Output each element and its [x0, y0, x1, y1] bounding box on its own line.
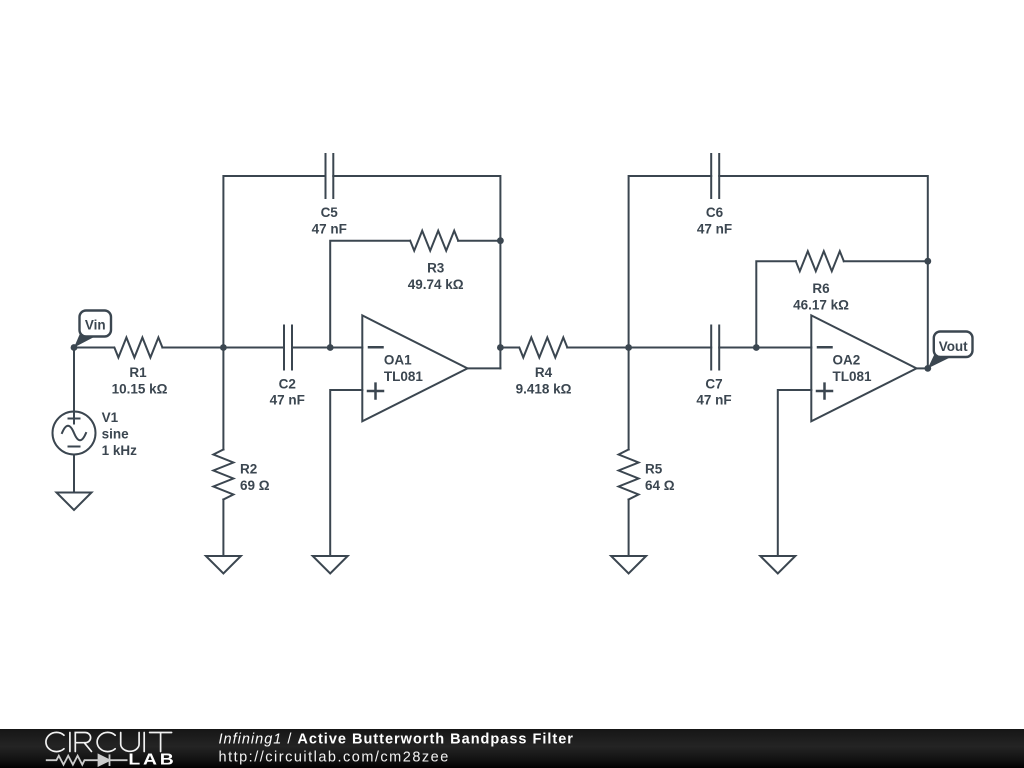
node B [220, 344, 227, 351]
wire C5 loop left [223, 176, 325, 348]
svg-text:TL081: TL081 [833, 369, 873, 384]
svg-text:47 nF: 47 nF [697, 221, 732, 236]
ground V1 [57, 493, 92, 511]
wire R4 to node D [567, 347, 711, 349]
svg-text:46.17 kΩ: 46.17 kΩ [793, 298, 849, 313]
svg-text:R1: R1 [129, 365, 147, 380]
svg-text:C7: C7 [705, 376, 722, 391]
node R3 right [497, 237, 504, 244]
ground R5 [611, 556, 646, 574]
svg-text:47 nF: 47 nF [270, 393, 305, 408]
resistor R6 [796, 251, 844, 271]
svg-text:69 Ω: 69 Ω [240, 478, 270, 493]
svg-text:R4: R4 [535, 365, 553, 380]
capacitor C7 [711, 326, 719, 370]
resistor R4 [519, 338, 567, 358]
capacitor C2 [284, 326, 292, 370]
capacitor C5 [326, 154, 334, 198]
svg-text:64 Ω: 64 Ω [645, 478, 675, 493]
flag Vout [928, 332, 973, 369]
svg-text:R6: R6 [812, 281, 830, 296]
node D [625, 344, 632, 351]
svg-text:10.15 kΩ: 10.15 kΩ [112, 382, 168, 397]
svg-text:C2: C2 [279, 376, 296, 391]
wire C5 loop right [333, 176, 500, 368]
svg-text:http://circuitlab.com/cm28zee: http://circuitlab.com/cm28zee [219, 750, 450, 766]
V1 sine [62, 426, 86, 441]
ground R2 [206, 556, 241, 574]
OA1 plus sign [368, 384, 383, 399]
logo CIRCUIT [46, 732, 172, 751]
wire R6 left [756, 261, 796, 347]
wire V1 top [73, 348, 75, 412]
node OA2 out [924, 365, 931, 372]
svg-text:R2: R2 [240, 462, 257, 477]
V1 minus sign [69, 446, 80, 448]
flag Vin [74, 311, 111, 348]
svg-text:OA2: OA2 [833, 352, 861, 367]
wire V1 bottom [73, 455, 75, 493]
svg-text:49.74 kΩ: 49.74 kΩ [408, 277, 464, 292]
op-amp OA2 [811, 315, 916, 421]
wire OA2 output [917, 367, 928, 369]
wire OA1 output [468, 367, 501, 369]
ground OA1 plus [313, 556, 348, 574]
svg-text:47 nF: 47 nF [696, 393, 731, 408]
wire R5 bottom [628, 500, 630, 557]
svg-text:OA1: OA1 [384, 352, 412, 367]
wire R3 left [330, 241, 410, 348]
svg-text:R5: R5 [645, 462, 663, 477]
svg-text:Infining1 / Active Butterworth: Infining1 / Active Butterworth Bandpass … [219, 732, 574, 748]
V1 plus sign [69, 414, 80, 424]
wire R6 right [844, 260, 928, 262]
wire OA1 plus to ground [330, 390, 362, 556]
OA2 minus sign [818, 346, 832, 349]
op-amp OA1 [362, 315, 467, 421]
wire OA1 out to R4 [500, 347, 518, 349]
wire OA2 plus to ground [778, 390, 812, 556]
wire C2 to OA1 minus [292, 347, 362, 349]
wire input node to R1 [74, 347, 114, 349]
svg-text:V1: V1 [102, 410, 119, 425]
svg-text:47 nF: 47 nF [312, 221, 347, 236]
voltage source V1 [53, 412, 96, 455]
node A input [71, 344, 78, 351]
ground OA2 plus [760, 556, 795, 574]
svg-text:Vin: Vin [85, 317, 106, 332]
wire R5 top [628, 348, 630, 450]
resistor R1 [114, 338, 162, 358]
node E OA2 minus [753, 344, 760, 351]
wire R1 to C2 [162, 347, 284, 349]
svg-text:LAB: LAB [128, 750, 176, 768]
svg-text:R3: R3 [427, 260, 445, 275]
svg-text:C5: C5 [321, 205, 339, 220]
wire R2 bottom [222, 500, 224, 557]
logo resistor-diode [46, 754, 128, 766]
resistor R2 [213, 450, 233, 500]
svg-text:TL081: TL081 [384, 369, 424, 384]
svg-text:C6: C6 [706, 205, 724, 220]
svg-text:1 kHz: 1 kHz [102, 443, 138, 458]
capacitor C6 [711, 154, 719, 198]
wire C7 to OA2 minus [719, 347, 811, 349]
wire C6 loop right [719, 176, 928, 368]
OA2 plus sign [817, 384, 832, 399]
footer bar [0, 729, 1024, 768]
svg-text:9.418 kΩ: 9.418 kΩ [516, 382, 572, 397]
wire R2 top [222, 348, 224, 450]
node C OA1 minus [327, 344, 334, 351]
node OA1 out [497, 344, 504, 351]
OA1 minus sign [369, 346, 383, 349]
svg-text:sine: sine [102, 427, 130, 442]
wire C6 loop left [629, 176, 712, 348]
resistor R3 [410, 231, 458, 251]
svg-text:Vout: Vout [939, 339, 968, 354]
wire R3 right [458, 240, 500, 242]
resistor R5 [619, 450, 639, 500]
node R6 right [924, 258, 931, 265]
